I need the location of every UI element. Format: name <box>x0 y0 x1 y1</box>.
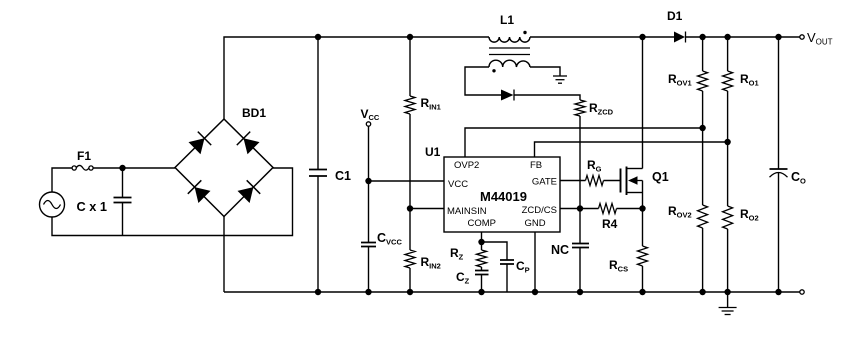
junction C1 top <box>315 34 321 40</box>
svg-text:M44019: M44019 <box>480 189 527 204</box>
junction RZ/CZ bottom <box>478 289 484 295</box>
junction ROV1 top <box>699 34 705 40</box>
wire top rail L1 to D1 <box>530 36 674 38</box>
junction ZCD node <box>577 205 583 211</box>
svg-text:NC: NC <box>551 243 569 257</box>
wire bottom ground rail <box>224 291 800 293</box>
wire VCC node to pin VCC <box>369 180 445 182</box>
wire AC source bottom return <box>52 168 293 236</box>
inductor L1 auxiliary winding <box>489 60 530 72</box>
capacitor CZ <box>456 267 489 292</box>
svg-text:BD1: BD1 <box>242 106 266 120</box>
wire RO1 to FB divider node <box>727 91 729 206</box>
resistor ROV2 <box>668 204 708 228</box>
junction RIN2 bottom <box>407 289 413 295</box>
resistor RG <box>586 158 604 186</box>
resistor ROV1 <box>668 71 708 91</box>
diode aux ZCD <box>501 90 514 101</box>
wire top rail to RIN1 <box>409 37 411 96</box>
wire ROV2 to ground rail <box>702 228 704 292</box>
svg-text:Q1: Q1 <box>652 170 669 184</box>
wire pin GND to ground rail <box>534 232 536 292</box>
svg-text:OVP2: OVP2 <box>454 160 479 171</box>
svg-text:D1: D1 <box>667 9 683 23</box>
resistor RIN2 <box>405 250 441 271</box>
diode D1 <box>667 9 686 43</box>
junction RIN1 top <box>407 34 413 40</box>
resistor RZCD <box>575 100 614 117</box>
svg-text:VCC: VCC <box>448 179 468 190</box>
resistor RO2 <box>723 206 759 229</box>
wire pin OVP2 to ROV1/ROV2 divider <box>465 128 703 157</box>
svg-text:ZCD/CS: ZCD/CS <box>522 205 557 216</box>
junction RCS bottom <box>639 289 645 295</box>
junction COMP node <box>478 239 484 245</box>
junction CO bottom <box>775 289 781 295</box>
junction Q1 source node <box>639 205 645 211</box>
junction fuse/Cx1 node <box>119 165 125 171</box>
wire Q1 drain to top rail <box>642 37 644 169</box>
wire aux winding right to ground <box>530 67 560 76</box>
svg-text:FB: FB <box>530 160 542 171</box>
junction Q1 drain top rail <box>639 34 645 40</box>
junction RO1 top <box>724 34 730 40</box>
svg-text:GND: GND <box>525 218 546 229</box>
svg-text:MAINSIN: MAINSIN <box>447 206 487 217</box>
capacitor CVCC <box>361 181 402 292</box>
wire RIN2 to ground rail <box>409 268 411 292</box>
svg-text:C1: C1 <box>335 169 351 183</box>
wire D1 cathode to VOUT <box>686 36 801 38</box>
wire bridge top vertex to top rail corner <box>224 37 489 119</box>
wire RO2 to ground rail <box>727 229 729 292</box>
junction CO top <box>775 34 781 40</box>
IC U1 M44019 <box>425 145 560 232</box>
junction ROV2 bottom <box>699 289 705 295</box>
bridge diode upper-left (AC L to D+) <box>189 132 212 155</box>
resistor RZ <box>450 242 487 267</box>
capacitor C x 1 <box>77 168 132 236</box>
wire pin GATE to RG <box>560 180 586 182</box>
wire fuse to bridge left vertex <box>93 167 175 169</box>
svg-text:GATE: GATE <box>532 177 557 188</box>
junction RO2 bottom <box>724 289 730 295</box>
wire top rail to ROV1 <box>702 37 704 71</box>
wire AC source top lead <box>52 168 72 192</box>
capacitor C1 <box>309 37 351 292</box>
transistor Q1 MOSFET <box>621 167 669 209</box>
wire pin COMP down <box>481 232 483 242</box>
wire RZCD to ZCD node <box>579 116 581 209</box>
wire aux winding left to diode <box>465 67 501 95</box>
capacitor CO <box>770 37 807 292</box>
wire top rail to RO1 <box>727 37 729 71</box>
wire ROV1 to divider node <box>702 91 704 205</box>
resistor RCS <box>609 209 648 293</box>
L1 core bars <box>489 48 530 55</box>
svg-text:U1: U1 <box>425 145 441 159</box>
capacitor CP <box>482 242 530 292</box>
svg-text:C x 1: C x 1 <box>77 200 108 214</box>
resistor R4 <box>599 204 618 232</box>
junction MAINSIN node <box>407 205 413 211</box>
ground main <box>719 292 737 315</box>
wire MAINSIN node to pin MAINSIN <box>410 208 444 210</box>
junction OVP divider node <box>699 125 705 131</box>
svg-text:F1: F1 <box>77 149 91 163</box>
wire pin FB to RO1/RO2 divider <box>535 142 728 157</box>
junction FB divider node <box>724 139 730 145</box>
resistor RIN1 <box>405 96 441 114</box>
svg-text:L1: L1 <box>500 13 514 27</box>
junction C1 bottom <box>315 289 321 295</box>
resistor RO1 <box>723 71 759 91</box>
wire RIN1 to MAINSIN node <box>409 114 411 209</box>
wire RG to Q1 gate <box>604 180 621 182</box>
capacitor NC on ZCD node <box>551 209 589 293</box>
wire diode to RZCD <box>514 95 580 100</box>
svg-text:COMP: COMP <box>468 218 497 229</box>
wire ZCD node to R4 <box>580 208 599 210</box>
junction GND bottom <box>532 289 538 295</box>
terminal VCC supply (open circle) <box>361 107 380 126</box>
ground aux winding <box>553 76 567 83</box>
terminal output return (open circle) <box>800 290 804 294</box>
wire MAINSIN node to RIN2 <box>409 209 411 251</box>
wire R4 to Q1 source node <box>617 208 643 210</box>
junction CVCC bottom <box>365 289 371 295</box>
fuse F1 <box>72 149 93 170</box>
bridge rectifier BD1 diamond <box>175 106 273 217</box>
AC source V1 <box>40 192 65 217</box>
bridge diode lower-right (D- to AC R) <box>238 180 261 203</box>
svg-text:R4: R4 <box>602 217 618 231</box>
bridge diode upper-right (AC R to D+) <box>237 132 260 155</box>
wire VCC terminal to VCC node <box>368 126 370 181</box>
junction NC bottom <box>577 289 583 295</box>
inductor L1 primary winding <box>489 13 530 42</box>
terminal VOUT (open circle) <box>800 30 833 47</box>
bridge diode lower-left (D- to AC L) <box>188 180 211 203</box>
junction VCC node <box>365 178 371 184</box>
wire bridge bottom vertex to ground rail <box>223 217 225 293</box>
wire pin ZCD/CS to node <box>560 208 580 210</box>
